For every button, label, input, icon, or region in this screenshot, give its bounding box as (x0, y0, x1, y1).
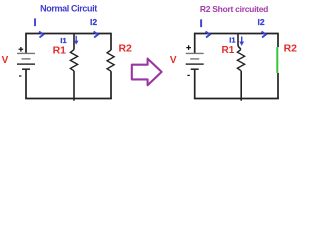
svg-text:I: I (200, 18, 203, 30)
battery plus sign (19, 47, 24, 52)
arrow I1 down (75, 36, 77, 41)
wire R1 branch top (right) (238, 34, 241, 49)
wire bottom (left circuit) (25, 98, 112, 100)
battery minus sign (19, 75, 21, 77)
current arrow I on top wire (39, 32, 43, 38)
current arrow I2 on top wire (94, 32, 98, 38)
svg-text:Normal Circuit: Normal Circuit (40, 4, 97, 14)
wire battery top drop (25, 33, 27, 53)
right rail black bottom (277, 73, 279, 99)
battery V2 plates (186, 53, 204, 69)
wire top (right circuit) (195, 33, 278, 35)
svg-text:I2: I2 (90, 17, 97, 27)
battery plus sign (right) (186, 45, 191, 50)
svg-text:R1: R1 (222, 45, 235, 56)
svg-text:R2 Short circuited: R2 Short circuited (200, 4, 268, 14)
current arrow I2 on top wire (right) (262, 32, 266, 38)
svg-text:V: V (2, 55, 9, 66)
wire battery bottom (25, 69, 27, 98)
svg-text:R2: R2 (118, 43, 132, 55)
resistor R2 zigzag (107, 50, 114, 71)
resistor R1 zigzag (right) (237, 49, 244, 70)
wire battery bottom (right) (194, 69, 196, 98)
resistor R1 zigzag (70, 50, 77, 71)
short circuit green wire (276, 47, 278, 73)
wire top (left circuit) (26, 33, 111, 35)
wire battery top drop (right) (194, 33, 196, 53)
battery V1 plates (17, 53, 35, 69)
wire R2 branch bottom (110, 71, 112, 99)
wire R1 branch bottom (right) (240, 71, 242, 101)
wire R2 branch (left circuit right rail) (110, 33, 112, 50)
svg-text:R2: R2 (284, 43, 298, 55)
svg-text:I2: I2 (258, 17, 265, 27)
battery minus sign (right) (187, 74, 189, 76)
right rail with short (black top) (277, 33, 279, 47)
wire bottom (right circuit) (194, 98, 279, 100)
svg-text:V: V (170, 55, 177, 66)
arrow I1 down (right) (241, 37, 243, 42)
wire R1 branch top (73, 34, 75, 50)
current arrow I on top wire (right) (206, 32, 210, 38)
svg-text:I: I (33, 17, 36, 29)
svg-text:I1: I1 (229, 36, 235, 45)
svg-text:R1: R1 (53, 45, 67, 57)
block arrow between circuits (132, 59, 162, 86)
wire R1 branch bottom (73, 71, 75, 101)
